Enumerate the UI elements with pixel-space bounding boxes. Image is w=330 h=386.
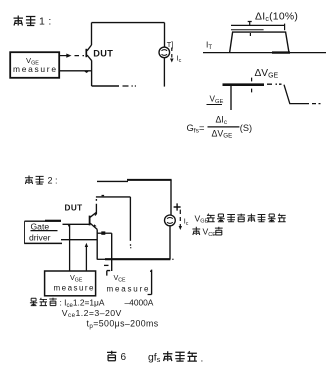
svg-text:Ic: Ic bbox=[184, 217, 189, 227]
svg-text:ΔIc: ΔIc bbox=[216, 115, 227, 126]
svg-text:ΔVGE: ΔVGE bbox=[212, 128, 233, 139]
svg-text:ΔVGE: ΔVGE bbox=[255, 68, 279, 80]
svg-text:1:: 1: bbox=[39, 16, 55, 28]
dashed arrow Ic (loop1) bbox=[170, 48, 174, 63]
svg-text:Gate: Gate bbox=[31, 222, 50, 232]
svg-text:Vce1.2=3–20V: Vce1.2=3–20V bbox=[62, 308, 122, 319]
dashed arrow Ic (loop2) bbox=[179, 210, 182, 230]
svg-text:VGE: VGE bbox=[195, 213, 209, 224]
transistor Q1 (DUT, IGBT) bbox=[86, 45, 91, 61]
label + (supply polarity) bbox=[174, 203, 181, 210]
svg-text:measure: measure bbox=[54, 284, 95, 293]
wire: M1 bottom terminal to emitter node bbox=[60, 71, 92, 72]
wire: CS2 bottom lead bbox=[169, 226, 171, 259]
waveform trace: VGE falling edge and low level bbox=[284, 85, 321, 104]
transistor Q2 (DUT, IGBT) bbox=[90, 212, 98, 229]
wire: Q1 emitter down + bottom rail (fading dashes) bbox=[92, 60, 136, 86]
wire: dashed arrow from M1 to gate of Q1 bbox=[60, 54, 85, 58]
svg-text:VGE: VGE bbox=[70, 273, 83, 283]
svg-text:VCE: VCE bbox=[114, 273, 127, 283]
svg-text:measure: measure bbox=[13, 64, 56, 74]
wire: driver return rail to emitter bbox=[61, 239, 97, 241]
wire: Q2 emitter down to bottom rail bbox=[96, 229, 98, 259]
svg-text:driver: driver bbox=[29, 233, 51, 243]
svg-text:tp=500μs–200ms: tp=500μs–200ms bbox=[87, 319, 159, 330]
label: method 2 heading (方法2:) bbox=[25, 175, 58, 185]
svg-text:6: 6 bbox=[121, 352, 127, 363]
svg-text:–4000A: –4000A bbox=[125, 297, 154, 307]
wire: Q2 collector drop (partly dashed) bbox=[95, 199, 96, 216]
wire: CS2 top lead bbox=[170, 180, 172, 215]
wire: gate drive output to Q2 gate bbox=[63, 223, 90, 225]
wire: inner sense rail (collector to VCE tap) bbox=[96, 196, 130, 197]
gate driver box U1 bbox=[24, 221, 62, 244]
VGE measure meter M2 bbox=[45, 271, 96, 296]
annotation line 1: VGE是調整... bbox=[195, 213, 286, 224]
wire: top rail of loop 1 bbox=[92, 22, 165, 24]
note: typical values line 1 (典型值: Ice1.2=1uA-4000A) bbox=[30, 297, 154, 308]
label: method 1 heading (方法1:) bbox=[14, 16, 55, 28]
svg-text:2 :: 2 : bbox=[48, 175, 58, 185]
svg-text:gfs: gfs bbox=[148, 353, 161, 365]
VGE measure meter M1 bbox=[10, 52, 59, 78]
svg-text:Ic: Ic bbox=[177, 54, 182, 64]
svg-text:(S): (S) bbox=[240, 123, 252, 133]
svg-text:VCE: VCE bbox=[203, 226, 217, 237]
wire: Q1 collector up to top rail bbox=[91, 23, 93, 45]
formula fraction bar bbox=[208, 126, 240, 128]
wire: VCE tap drop to meter M3 bbox=[111, 233, 113, 271]
caption: 圖 6 gfs的測試 bbox=[107, 351, 203, 365]
label VGE on waveform 2 bbox=[207, 95, 224, 105]
svg-text:DUT: DUT bbox=[65, 204, 83, 213]
measurement bracket over Ic pulse bbox=[231, 21, 285, 36]
annotation line 2: 的VCE值 bbox=[192, 226, 222, 237]
wire: VGE sense tap from gate wire down to meter M2 bbox=[68, 224, 70, 271]
svg-text:measure: measure bbox=[107, 284, 150, 293]
svg-text:Gfs=: Gfs= bbox=[187, 122, 205, 135]
svg-text:ΔIc(10%): ΔIc(10%) bbox=[255, 11, 298, 23]
wire: outer top rail (collector to CS2) bbox=[97, 180, 172, 182]
svg-text:VGE: VGE bbox=[210, 95, 224, 105]
waveform trace: VGE pulse top (thick) with dash-dot tail bbox=[223, 78, 282, 93]
svg-text:.: . bbox=[201, 353, 204, 364]
wire: emitter branch to VCE tap (with solid marker) bbox=[97, 231, 112, 234]
waveform trace: Ic pulse with baseline IT bbox=[203, 32, 326, 53]
svg-text:IT: IT bbox=[206, 40, 212, 51]
wire: inner sense right drop bbox=[129, 197, 131, 248]
current source CS2 bbox=[165, 215, 176, 226]
waveform trace: VGE rising edge bbox=[230, 86, 232, 110]
svg-text:DUT: DUT bbox=[93, 48, 113, 58]
wire: CS1 bottom lead bbox=[163, 58, 165, 87]
wire: VGE sense arrow up to emitter rail bbox=[85, 243, 88, 271]
wire: right drop to current source CS1 bbox=[164, 23, 166, 47]
current source CS1 bbox=[159, 47, 170, 58]
VCE measure meter M3 (partial box) bbox=[104, 265, 152, 294]
wire: bottom rail (emitter to CS2) bbox=[97, 258, 173, 260]
